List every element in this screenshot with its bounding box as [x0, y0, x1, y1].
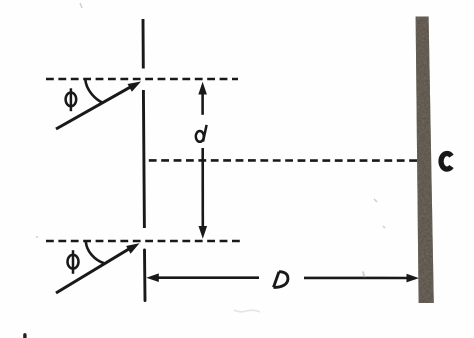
phi label (lower) — [68, 250, 79, 274]
dimension d: upper arrow (points up to upper slit axis) — [198, 82, 207, 115]
phi label (upper) — [66, 88, 77, 111]
screen (shaded bar) — [416, 17, 434, 304]
dashed axis through lower slit — [46, 240, 240, 243]
slit plate: upper segment — [142, 19, 145, 69]
incident ray arrow into upper slit — [56, 82, 141, 130]
dashed central axis to point C — [144, 159, 417, 162]
dashed axis through upper slit — [46, 78, 238, 81]
label C — [441, 153, 451, 169]
slit plate: middle segment — [143, 90, 144, 228]
label d — [196, 125, 207, 142]
dimension D: right arrow — [304, 274, 419, 283]
slit plate: lower segment — [143, 250, 146, 301]
angle arc at upper slit — [85, 80, 103, 103]
angle arc at lower slit — [86, 241, 104, 263]
dimension d: lower arrow (points down to lower slit axis) — [199, 148, 208, 239]
label D — [274, 272, 288, 288]
incident ray arrow into lower slit — [56, 243, 140, 293]
stray ink mark bottom-left — [23, 335, 26, 338]
dimension D: left arrow — [146, 273, 259, 282]
faint scan smudges — [36, 3, 385, 312]
